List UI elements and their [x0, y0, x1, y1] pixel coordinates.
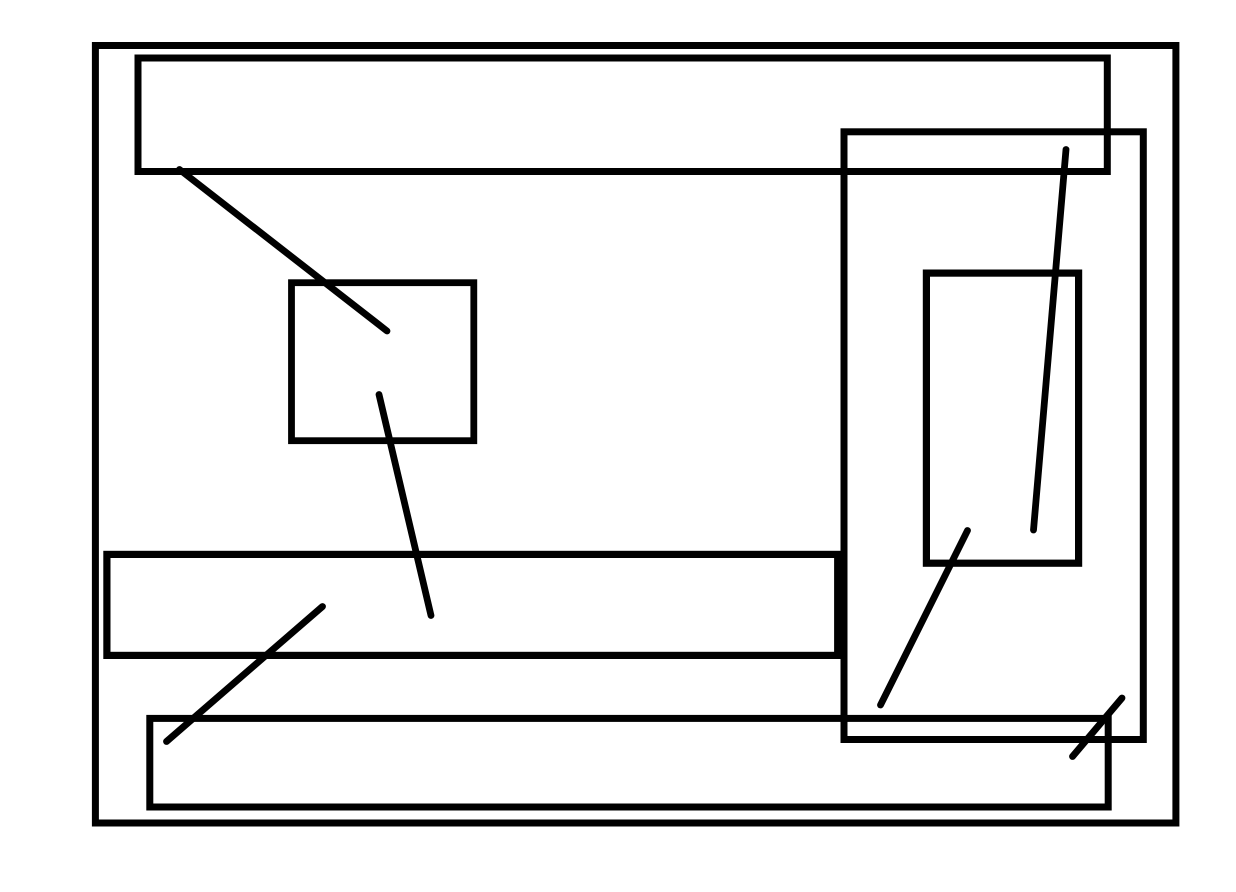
diagonal line f: short slash at bottom right — [1073, 698, 1123, 757]
diagonal line a: from top bar bottom edge into small square — [180, 170, 388, 332]
diagonal line c: crossing bottom-left of middle/bottom bars — [167, 607, 323, 742]
small square — [292, 283, 474, 441]
inner right rectangle — [926, 273, 1078, 563]
diagonal line e: from inner right rectangle down-left — [881, 531, 968, 706]
middle bar rectangle — [107, 554, 838, 655]
right tall rectangle — [844, 132, 1143, 740]
top bar rectangle — [138, 58, 1107, 172]
bottom bar rectangle — [150, 718, 1108, 807]
diagonal line b: from inside small square down to middle bar — [379, 395, 431, 616]
outer frame rectangle — [95, 46, 1176, 824]
diagonal line d: long near-vertical line in right tall rectangle — [1034, 150, 1067, 531]
